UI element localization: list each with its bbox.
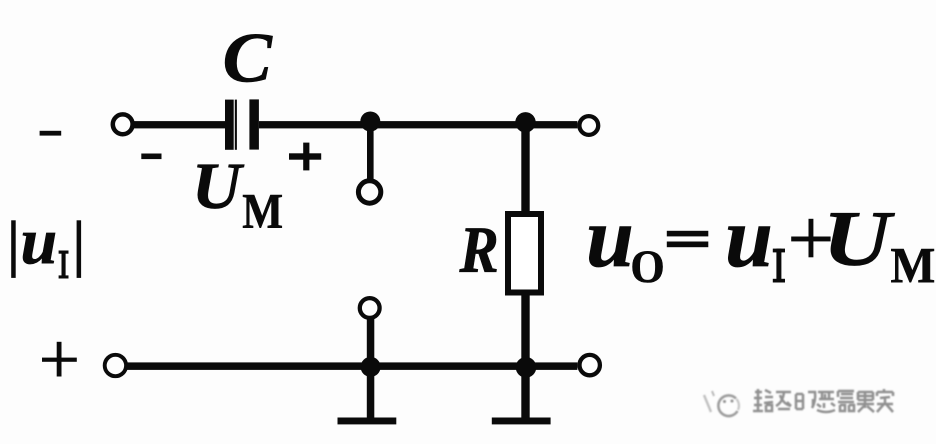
terminal top-right (579, 116, 598, 135)
capacitor C (225, 99, 259, 149)
svg-text:U: U (823, 195, 896, 282)
wire top-left segment (133, 121, 226, 128)
plus sign bottom-left (42, 342, 77, 377)
svg-text:u: u (586, 189, 634, 285)
minus sign below capacitor left (141, 154, 161, 160)
svg-text:R: R (459, 215, 499, 286)
wire from resistor down to ground (521, 295, 529, 418)
resistor R (508, 214, 541, 293)
minus sign left of input terminal (40, 131, 62, 136)
ground left (338, 418, 397, 425)
svg-text:U: U (192, 150, 245, 222)
open terminal below J1 (358, 181, 380, 203)
ground right (492, 418, 551, 425)
plus sign right of capacitor (289, 143, 321, 171)
wire top rail right of capacitor (259, 121, 578, 128)
svg-text:O: O (630, 240, 664, 293)
wire stub from terminal down to J3 (367, 318, 375, 368)
wire from J2 down to resistor (521, 124, 529, 212)
svg-text:M: M (242, 184, 283, 239)
equation uO = uI + UM (586, 189, 935, 294)
svg-text:u: u (725, 189, 773, 285)
terminal bottom-right (580, 355, 600, 375)
svg-text:u: u (21, 205, 58, 278)
open terminal above J3 (360, 298, 380, 318)
node junction J2 (515, 112, 535, 132)
terminal top-left (113, 114, 133, 134)
wire bottom rail (126, 362, 577, 370)
wire from J3 down to ground (367, 368, 375, 418)
watermark logo and text (704, 389, 893, 416)
node junction J3 (361, 357, 381, 377)
wire stub down from J1 (367, 124, 374, 181)
label UM (192, 150, 283, 239)
terminal bottom-left (105, 355, 126, 376)
svg-text:C: C (223, 18, 273, 97)
svg-text:M: M (891, 237, 936, 294)
node junction J4 (516, 357, 537, 378)
node junction J1 (360, 112, 380, 132)
label uI magnitude (11, 205, 81, 279)
